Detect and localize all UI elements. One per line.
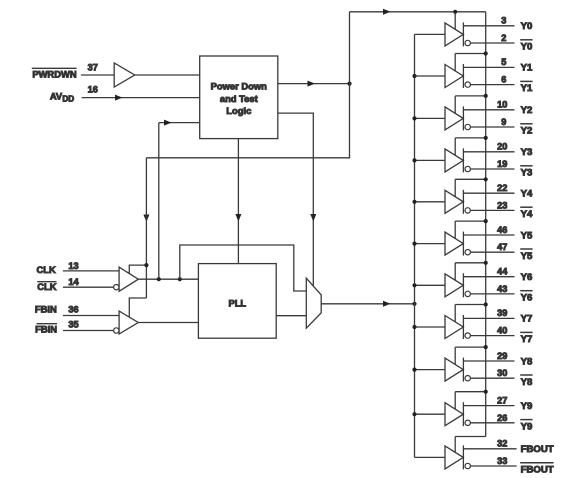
node left bus tap Y1 bbox=[412, 74, 416, 78]
svg-text:Y9: Y9 bbox=[521, 401, 533, 412]
svg-text:19: 19 bbox=[497, 159, 507, 169]
net Y5-bar label bbox=[520, 249, 533, 262]
wire mux select from Power Down logic bbox=[278, 113, 317, 286]
buffer U17 (differential output FBOUT) bbox=[415, 437, 517, 470]
node right bus tap Y8 bbox=[484, 345, 488, 349]
buffer U11 (differential output Y4) bbox=[415, 179, 515, 214]
buffer U9 (differential output Y2) bbox=[415, 96, 515, 130]
pin 6 (Y1-bar) bbox=[501, 75, 506, 85]
net Y9-bar label bbox=[520, 420, 532, 433]
svg-text:CLK: CLK bbox=[37, 281, 56, 292]
net FBIN label bbox=[35, 304, 57, 315]
node left bus tap Y8 bbox=[412, 368, 416, 372]
svg-text:Logic: Logic bbox=[226, 105, 251, 116]
net FBOUT label bbox=[521, 444, 554, 455]
svg-text:2: 2 bbox=[501, 33, 506, 43]
net FBOUT-bar label bbox=[520, 463, 554, 476]
net Y7 label bbox=[521, 314, 533, 325]
node riser junction bbox=[347, 82, 351, 86]
svg-text:14: 14 bbox=[68, 277, 79, 287]
net FBIN-bar label bbox=[35, 324, 57, 335]
wire CLK bypass to mux bbox=[180, 245, 306, 291]
svg-text:16: 16 bbox=[88, 85, 98, 95]
buffer U14 (differential output Y7) bbox=[415, 305, 515, 340]
svg-text:Y6: Y6 bbox=[521, 293, 533, 304]
pin 40 (Y7-bar) bbox=[497, 326, 507, 336]
svg-text:and Test: and Test bbox=[220, 93, 258, 104]
node right bus tap Y9 bbox=[484, 390, 488, 394]
wire FBIN buffer output to PLL bbox=[138, 322, 198, 324]
pin 36 (FBIN) bbox=[68, 304, 78, 314]
net Y7-bar label bbox=[520, 332, 532, 345]
pin 47 (Y5-bar) bbox=[497, 242, 507, 252]
wire bypass drop to CLK/FBIN buffers bbox=[145, 158, 147, 298]
net Y4 label bbox=[521, 189, 533, 200]
pin 32 (FBOUT) bbox=[497, 439, 507, 449]
net Y3-bar label bbox=[520, 166, 532, 179]
svg-text:46: 46 bbox=[497, 225, 507, 235]
svg-text:Y8: Y8 bbox=[521, 356, 533, 367]
node mux output junction bbox=[412, 302, 416, 306]
svg-text:Y2: Y2 bbox=[521, 126, 533, 137]
svg-text:FBIN: FBIN bbox=[35, 324, 57, 335]
pin 46 (Y5) bbox=[497, 225, 507, 235]
svg-text:PWRDWN: PWRDWN bbox=[32, 68, 76, 79]
pin 27 (Y9) bbox=[497, 395, 507, 405]
svg-text:29: 29 bbox=[497, 351, 507, 361]
svg-text:Y0: Y0 bbox=[521, 21, 533, 32]
svg-text:Y9: Y9 bbox=[521, 421, 533, 432]
svg-text:Y3: Y3 bbox=[521, 147, 533, 158]
wire PLL output to mux bbox=[276, 315, 306, 317]
svg-text:FBOUT: FBOUT bbox=[521, 444, 554, 455]
net Y2 label bbox=[521, 105, 533, 116]
net Y6-bar label bbox=[520, 291, 532, 304]
wire bypass into FBIN buffer bbox=[129, 298, 146, 317]
buffer U1 (PWRDWN input buffer) bbox=[114, 63, 135, 87]
svg-text:FBOUT: FBOUT bbox=[521, 465, 554, 476]
svg-text:Y7: Y7 bbox=[521, 314, 533, 325]
svg-text:26: 26 bbox=[497, 413, 507, 423]
net Y0-bar label bbox=[520, 40, 532, 53]
net Y8 label bbox=[521, 356, 533, 367]
svg-text:30: 30 bbox=[497, 368, 507, 378]
svg-text:22: 22 bbox=[497, 183, 507, 193]
wire FBIN input bbox=[63, 315, 119, 317]
buffer U13 (differential output Y6) bbox=[415, 263, 515, 298]
svg-text:47: 47 bbox=[497, 242, 507, 252]
buffer U15 (differential output Y8) bbox=[415, 347, 515, 382]
pin 26 (Y9-bar) bbox=[497, 413, 507, 423]
net Y1-bar label bbox=[520, 81, 533, 94]
wire top rail bbox=[350, 9, 486, 15]
net AVDD label bbox=[50, 91, 74, 104]
wire mux output to distribution bus bbox=[321, 301, 414, 307]
node left bus tap Y6 bbox=[412, 283, 416, 287]
buffer U7 (differential output Y0) bbox=[415, 12, 515, 47]
wire Power Down logic output to top rail riser bbox=[278, 81, 350, 87]
wire right top-connect bus bbox=[485, 12, 487, 437]
node CLK output to PD-logic tap bbox=[157, 277, 161, 281]
pin 20 (Y3) bbox=[497, 142, 507, 152]
svg-text:10: 10 bbox=[497, 100, 507, 110]
svg-text:AV: AV bbox=[50, 91, 63, 102]
pin 14 (CLK-bar) bbox=[68, 277, 79, 287]
svg-text:CLK: CLK bbox=[37, 264, 56, 275]
block U2 Power Down and Test Logic bbox=[200, 56, 278, 139]
node right bus tap Y6 bbox=[484, 261, 488, 265]
net Y1 label bbox=[521, 63, 533, 74]
svg-text:Y1: Y1 bbox=[521, 63, 533, 74]
svg-text:13: 13 bbox=[68, 261, 78, 271]
net Y9 label bbox=[521, 401, 533, 412]
block U5 PLL bbox=[198, 264, 276, 339]
svg-text:Y4: Y4 bbox=[521, 209, 533, 220]
svg-text:Power Down: Power Down bbox=[211, 81, 268, 92]
pin 23 (Y4-bar) bbox=[497, 200, 507, 210]
net PWRDWN label (active-low) bbox=[32, 68, 77, 79]
wire U1 output to Power Down logic bbox=[135, 74, 200, 76]
net Y2-bar label bbox=[520, 124, 532, 137]
node left bus tap Y2 bbox=[412, 116, 416, 120]
pin 10 (Y2) bbox=[497, 100, 507, 110]
pin 13 (CLK) bbox=[68, 261, 78, 271]
svg-text:PLL: PLL bbox=[228, 298, 246, 309]
net Y0 label bbox=[521, 21, 533, 32]
mux U6 (PLL bypass multiplexer) bbox=[306, 278, 321, 328]
wire PWRDWN input bbox=[81, 74, 114, 76]
svg-text:39: 39 bbox=[497, 308, 507, 318]
svg-text:DD: DD bbox=[62, 95, 74, 104]
pin 29 (Y8) bbox=[497, 351, 507, 361]
wire bypass into CLK buffer bbox=[129, 265, 146, 274]
svg-text:44: 44 bbox=[497, 267, 508, 277]
wire riser to top rail and bypass line bbox=[143, 12, 349, 222]
net CLK-bar label bbox=[37, 281, 56, 292]
svg-text:Y1: Y1 bbox=[521, 83, 533, 94]
buffer U10 (differential output Y3) bbox=[415, 138, 515, 173]
svg-text:Y6: Y6 bbox=[521, 272, 533, 283]
pin 30 (Y8-bar) bbox=[497, 368, 507, 378]
svg-text:9: 9 bbox=[501, 117, 506, 127]
pin 2 (Y0-bar) bbox=[501, 33, 506, 43]
buffer U16 (differential output Y9) bbox=[415, 392, 515, 427]
pin 33 (FBOUT-bar) bbox=[497, 456, 507, 466]
net Y4-bar label bbox=[520, 207, 533, 220]
net Y8-bar label bbox=[520, 375, 533, 388]
svg-text:35: 35 bbox=[68, 319, 78, 329]
net Y6 label bbox=[521, 272, 533, 283]
wire Power Down logic to PLL bbox=[235, 139, 241, 264]
net Y5 label bbox=[521, 230, 533, 241]
wire CLK feedback into Power Down logic bbox=[159, 120, 200, 280]
svg-text:Y2: Y2 bbox=[521, 105, 533, 116]
wire AVDD input bbox=[82, 95, 200, 101]
pin 16 (AVDD) bbox=[88, 85, 98, 95]
svg-text:23: 23 bbox=[497, 200, 507, 210]
node top rail to Y0 drop bbox=[453, 10, 457, 14]
node right bus tap Y7 bbox=[484, 302, 488, 306]
pin 3 (Y0) bbox=[501, 16, 506, 26]
wire FBIN-bar input bbox=[63, 330, 114, 332]
svg-text:Y4: Y4 bbox=[521, 189, 533, 200]
svg-text:Y3: Y3 bbox=[521, 168, 533, 179]
node right bus tap Y1 bbox=[484, 51, 488, 55]
pin 43 (Y6-bar) bbox=[497, 284, 507, 294]
pin 19 (Y3-bar) bbox=[497, 159, 507, 169]
node left bus tap Y3 bbox=[412, 158, 416, 162]
node right bus tap Y2 bbox=[484, 94, 488, 98]
svg-text:Y8: Y8 bbox=[521, 377, 533, 388]
pin 44 (Y6) bbox=[497, 267, 508, 277]
node CLK output to mux-bypass tap bbox=[178, 277, 182, 281]
wire CLK-bar input bbox=[63, 286, 114, 288]
node right bus tap Y3 bbox=[484, 136, 488, 140]
pin 9 (Y2-bar) bbox=[501, 117, 506, 127]
pin 22 (Y4) bbox=[497, 183, 507, 193]
svg-text:FBIN: FBIN bbox=[35, 304, 57, 315]
wire CLK buffer output to PLL bbox=[138, 278, 198, 280]
wire CLK input bbox=[63, 270, 119, 272]
node left bus tap Y9 bbox=[412, 412, 416, 416]
wire left distribution bus bbox=[414, 34, 416, 457]
svg-text:36: 36 bbox=[68, 304, 78, 314]
svg-text:6: 6 bbox=[501, 75, 506, 85]
buffer U12 (differential output Y5) bbox=[415, 221, 515, 256]
pin 39 (Y7) bbox=[497, 308, 507, 318]
svg-text:Y7: Y7 bbox=[521, 334, 533, 345]
node bypass/CLK junction bbox=[144, 263, 148, 267]
pin 35 (FBIN-bar) bbox=[68, 319, 78, 329]
svg-text:5: 5 bbox=[501, 57, 506, 67]
svg-text:3: 3 bbox=[501, 16, 506, 26]
buffer U8 (differential output Y1) bbox=[415, 54, 515, 89]
svg-text:33: 33 bbox=[497, 456, 507, 466]
buffer U4 (FBIN differential input buffer) bbox=[114, 311, 139, 334]
net CLK label bbox=[37, 264, 56, 275]
node right bus tap Y5 bbox=[484, 219, 488, 223]
pin 37 (PWRDWN) bbox=[88, 63, 98, 73]
node left bus tap Y4 bbox=[412, 200, 416, 204]
buffer U3 (CLK differential input buffer) bbox=[114, 267, 139, 291]
svg-text:32: 32 bbox=[497, 439, 507, 449]
svg-text:Y0: Y0 bbox=[521, 42, 533, 53]
svg-text:37: 37 bbox=[88, 63, 98, 73]
svg-text:27: 27 bbox=[497, 395, 507, 405]
pin 5 (Y1) bbox=[501, 57, 506, 67]
svg-text:20: 20 bbox=[497, 142, 507, 152]
net Y3 label bbox=[521, 147, 533, 158]
svg-text:Y5: Y5 bbox=[521, 251, 533, 262]
svg-text:Y5: Y5 bbox=[521, 230, 533, 241]
node left bus tap Y5 bbox=[412, 242, 416, 246]
node left bus tap Y7 bbox=[412, 325, 416, 329]
svg-text:43: 43 bbox=[497, 284, 507, 294]
svg-text:40: 40 bbox=[497, 326, 507, 336]
node right bus tap Y4 bbox=[484, 177, 488, 181]
